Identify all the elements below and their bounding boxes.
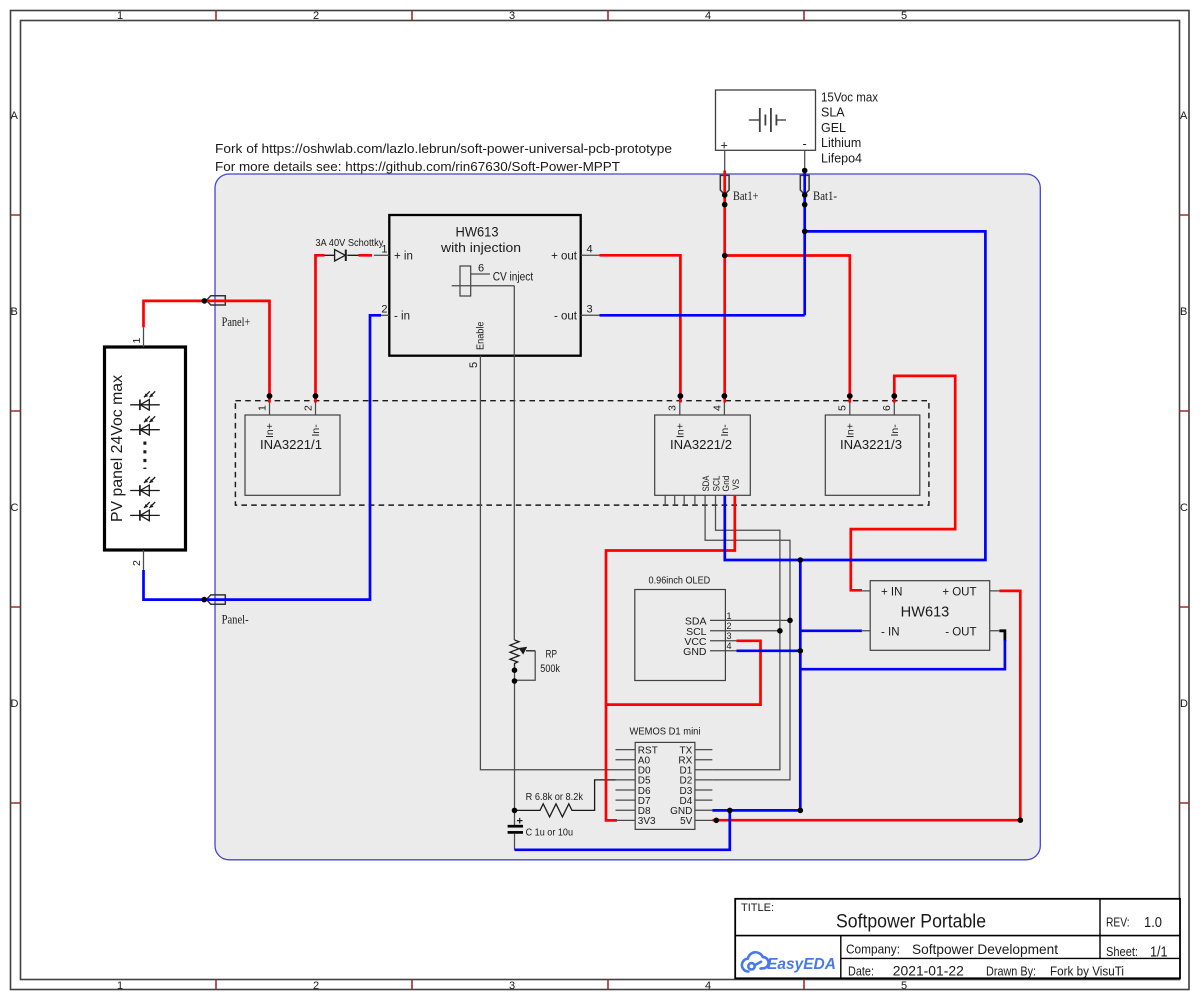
title block outer <box>735 899 1180 979</box>
INA3221/1 box <box>245 415 340 495</box>
wire CV inject to RP top <box>513 286 515 640</box>
U1 pin 3 stub <box>581 314 600 316</box>
svg-text:+ out: + out <box>551 250 578 262</box>
svg-text:- OUT: - OUT <box>945 626 976 638</box>
zone letters left <box>11 110 19 710</box>
svg-text:GEL: GEL <box>821 121 846 135</box>
svg-text:SLA: SLA <box>821 106 845 120</box>
svg-text:3: 3 <box>587 304 593 316</box>
svg-text:2: 2 <box>727 621 732 631</box>
wire blue main vertical bus <box>799 560 802 810</box>
svg-text:3: 3 <box>727 631 732 641</box>
svg-text:5V: 5V <box>680 816 693 827</box>
PV panel box <box>105 347 186 550</box>
battery pin stubs <box>725 150 805 170</box>
svg-text:5: 5 <box>468 362 480 368</box>
svg-text:EasyEDA: EasyEDA <box>767 956 836 973</box>
OLED VCC GND stubs <box>710 641 737 651</box>
svg-text:Date:: Date: <box>848 964 874 978</box>
wire blue HW613/2 -OUT return to bus <box>800 640 1005 669</box>
svg-text:B: B <box>11 306 18 318</box>
U1 CV inject crossbar wire <box>452 285 515 287</box>
svg-text:+: + <box>517 816 523 828</box>
svg-text:2: 2 <box>381 304 387 316</box>
wire red U1 +out to INA2 pin3 <box>600 255 681 402</box>
INA3221/2 box <box>655 415 751 495</box>
svg-text:5: 5 <box>901 980 907 992</box>
svg-text:1: 1 <box>727 611 732 621</box>
svg-text:500k: 500k <box>540 663 560 675</box>
svg-text:In+: In+ <box>264 423 276 438</box>
svg-text:INA3221/2: INA3221/2 <box>670 438 732 452</box>
svg-text:1: 1 <box>256 405 268 411</box>
svg-text:R 6.8k or 8.2k: R 6.8k or 8.2k <box>526 791 584 803</box>
potentiometer RP wiper loop wire <box>517 651 535 681</box>
connector Bat1+ symbol <box>720 175 729 194</box>
U1 pin 4 stub <box>581 254 600 256</box>
svg-text:Fork by VisuTi: Fork by VisuTi <box>1050 965 1124 979</box>
wire red Bat1+ down to INA2 pin4 <box>723 171 726 403</box>
wire OLED SCL horizontal <box>710 630 780 632</box>
svg-text:HW613: HW613 <box>456 225 499 240</box>
INA3221/1 pin 1 stub <box>269 399 271 415</box>
svg-text:4: 4 <box>705 10 711 22</box>
wire blue U1 -out to Bat1- vertical <box>600 314 805 317</box>
wire red INA1 In- up to diode anode <box>316 255 325 402</box>
svg-text:RP: RP <box>546 649 558 661</box>
svg-text:+ IN: + IN <box>881 586 902 598</box>
INA3221/1 pin 2 stub <box>315 399 317 415</box>
connector Bat1- symbol <box>800 175 809 194</box>
INA3221/3 box <box>825 415 920 495</box>
svg-text:Bat1-: Bat1- <box>813 189 837 203</box>
svg-text:- out: - out <box>554 310 578 322</box>
svg-text:6: 6 <box>881 405 893 411</box>
capacitor C plates <box>508 825 523 828</box>
photodiode 4 <box>130 502 160 521</box>
svg-text:+ in: + in <box>394 250 413 262</box>
svg-text:3: 3 <box>667 405 679 411</box>
EasyEDA logo cloud <box>742 952 769 971</box>
svg-text:4: 4 <box>727 641 732 651</box>
RP body lower wire <box>514 666 516 825</box>
zone ticks left <box>11 215 21 803</box>
svg-text:VS: VS <box>731 479 742 490</box>
dotted continuation in PV panel <box>143 442 146 470</box>
resistor R 6.8k zigzag <box>515 780 616 817</box>
wire red HW613/2 +OUT to WEMOS 5V <box>712 591 1020 820</box>
svg-text:C: C <box>11 502 19 514</box>
svg-text:GND: GND <box>683 646 707 658</box>
svg-text:In+: In+ <box>675 423 687 438</box>
title block logo cell divider <box>840 936 842 979</box>
svg-text:1: 1 <box>117 10 123 22</box>
svg-text:1.0: 1.0 <box>1144 915 1162 931</box>
zone letters right <box>1180 110 1188 710</box>
svg-text:5: 5 <box>901 10 907 22</box>
schematic sheet background <box>215 174 1040 860</box>
wire blue WEMOS GND to bus <box>712 809 800 812</box>
svg-text:Lifepo4: Lifepo4 <box>821 151 862 165</box>
svg-text:PV panel 24Voc max: PV panel 24Voc max <box>109 375 126 522</box>
WEMOS right pin stubs <box>695 750 713 821</box>
svg-text:- in: - in <box>394 310 410 322</box>
battery symbol <box>749 108 786 132</box>
svg-text:2: 2 <box>302 405 314 411</box>
svg-text:+ OUT: + OUT <box>942 586 976 598</box>
svg-text:CV inject: CV inject <box>493 271 534 283</box>
connector Panel+ symbol <box>207 296 226 305</box>
wire red OLED VCC loop <box>607 641 761 705</box>
svg-text:In-: In- <box>889 424 901 437</box>
zone ticks top <box>216 11 804 21</box>
svg-text:Enable: Enable <box>475 321 487 350</box>
converter U2 HW613 box <box>870 581 990 651</box>
svg-text:SDA: SDA <box>701 475 712 492</box>
battery BT1 box <box>716 90 816 150</box>
svg-text:Company:: Company: <box>846 943 900 957</box>
wire blue GND down and left to capacitor <box>515 810 730 849</box>
WEMOS right pin labels <box>670 745 693 827</box>
svg-text:In-: In- <box>719 424 731 437</box>
svg-text:INA3221/1: INA3221/1 <box>260 438 322 452</box>
svg-text:Sheet:: Sheet: <box>1106 945 1138 959</box>
svg-text:Lithium: Lithium <box>821 136 861 150</box>
zone ticks right <box>1180 215 1190 803</box>
potentiometer RP wiper arrow <box>526 650 535 652</box>
svg-text:2: 2 <box>313 980 319 992</box>
RP junction dots <box>512 667 518 673</box>
photodiode 2 <box>130 416 160 435</box>
wire blue OLED GND to bus <box>737 649 801 652</box>
svg-text:2: 2 <box>313 10 319 22</box>
svg-text:TITLE:: TITLE: <box>741 902 774 914</box>
svg-text:4: 4 <box>705 980 711 992</box>
U1 pin 1 stub <box>374 254 389 256</box>
svg-text:2021-01-22: 2021-01-22 <box>893 963 964 979</box>
photodiode 3 <box>130 477 160 496</box>
INA3221/2 pin 3 stub <box>679 399 681 415</box>
svg-text:INA3221/3: INA3221/3 <box>840 438 902 452</box>
svg-text:D: D <box>1180 698 1188 710</box>
svg-text:1: 1 <box>117 980 123 992</box>
converter U1 HW613 with injection box <box>389 215 580 356</box>
wire blue PV- to Panel- to U1 -in <box>144 315 382 599</box>
wire OLED SDA horizontal <box>710 619 790 621</box>
svg-text:In+: In+ <box>845 423 857 438</box>
photodiode 1 <box>130 391 160 410</box>
svg-text:Panel+: Panel+ <box>222 315 251 329</box>
INA3221/3 pin 5 stub <box>849 399 851 415</box>
battery type annotation <box>821 91 879 166</box>
zone numbers bottom <box>117 980 907 992</box>
svg-text:15Voc max: 15Voc max <box>821 91 879 105</box>
wire red INA3 pin6 to HW613/2 +IN <box>851 376 955 590</box>
INA3221/2 pin 4 stub <box>723 399 725 415</box>
OLED display box <box>635 590 726 681</box>
svg-text:0.96inch OLED: 0.96inch OLED <box>649 575 711 587</box>
capacitor bottom lead <box>514 834 516 850</box>
wire SDA net INA3221/2 to OLED/D2 <box>705 495 790 780</box>
WEMOS left pin labels <box>638 745 658 827</box>
svg-text:3V3: 3V3 <box>638 816 656 827</box>
PV pin 1 stub <box>143 327 145 347</box>
svg-text:Softpower Portable: Softpower Portable <box>836 912 986 933</box>
zone numbers top <box>117 10 907 22</box>
wire red diode cathode to U1 +in <box>359 254 373 257</box>
connector Panel- symbol <box>207 595 226 604</box>
svg-text:4: 4 <box>587 244 593 256</box>
svg-text:2: 2 <box>131 560 143 566</box>
zone ticks bottom <box>216 980 804 990</box>
wire blue Bat1- bus right and down to INA2 Gnd <box>725 231 986 560</box>
svg-text:4: 4 <box>711 405 723 411</box>
black elbow at HW613/2 -OUT <box>999 631 1005 642</box>
svg-text:Bat1+: Bat1+ <box>733 189 759 203</box>
svg-text:Panel-: Panel- <box>222 613 249 627</box>
svg-text:HW613: HW613 <box>901 605 950 621</box>
U2 pin stubs <box>861 591 1000 631</box>
potentiometer RP zigzag <box>510 640 519 668</box>
dashed INA group box <box>235 401 929 505</box>
svg-text:1: 1 <box>131 338 143 344</box>
wire red PV+ to Panel+ to INA1 In+ <box>144 301 270 403</box>
diode D1 symbol <box>324 250 359 261</box>
title block rev/sheet divider <box>1099 899 1101 959</box>
svg-text:D: D <box>11 698 19 710</box>
svg-text:REV:: REV: <box>1106 916 1130 930</box>
U1 CV inject connector symbol <box>460 266 471 296</box>
U1 pin 6 stub <box>471 273 490 275</box>
svg-text:Softpower Development: Softpower Development <box>912 941 1058 957</box>
title block row divider 1 <box>735 935 1180 937</box>
svg-text:For more details see: https://: For more details see: https://github.com… <box>215 159 620 174</box>
wire SCL net INA3221/2 to OLED/D1 <box>712 495 780 770</box>
svg-text:WEMOS D1 mini: WEMOS D1 mini <box>630 726 701 738</box>
svg-text:A: A <box>11 110 19 122</box>
svg-text:5: 5 <box>837 405 849 411</box>
PV pin 2 stub <box>143 550 145 570</box>
svg-text:- IN: - IN <box>881 626 900 638</box>
svg-text:3: 3 <box>509 10 515 22</box>
wire blue bus to HW613/2 -IN <box>800 629 862 632</box>
title block row divider 2 <box>841 957 1180 959</box>
svg-text:C: C <box>1180 502 1188 514</box>
svg-text:B: B <box>1180 306 1187 318</box>
svg-text:-: - <box>803 137 807 151</box>
svg-text:3A 40V Schottky: 3A 40V Schottky <box>315 237 384 249</box>
WEMOS left pin stubs <box>616 750 636 821</box>
svg-text:A: A <box>1180 110 1188 122</box>
svg-text:6: 6 <box>478 263 484 275</box>
svg-text:Drawn By:: Drawn By: <box>986 964 1036 978</box>
wire red crossover to INA3 pin5 <box>725 256 850 403</box>
svg-text:3: 3 <box>509 980 515 992</box>
wire Enable net U1 pin5 to WEMOS D0 <box>480 356 615 770</box>
svg-text:1/1: 1/1 <box>1150 944 1168 960</box>
INA3221/2 unconnected bottom stubs <box>665 495 695 505</box>
svg-text:with injection: with injection <box>440 241 521 255</box>
INA3221/3 pin 6 stub <box>893 399 895 415</box>
svg-text:In-: In- <box>310 424 322 437</box>
WEMOS D1 mini box <box>635 742 695 829</box>
wire blue Bat1- down <box>803 172 806 315</box>
U1 pin 2 stub <box>376 314 389 316</box>
wire red INA2 VS to WEMOS 3V3 <box>606 495 735 820</box>
svg-text:C 1u or 10u: C 1u or 10u <box>526 827 574 839</box>
svg-text:Fork of https://oshwlab.com/la: Fork of https://oshwlab.com/lazlo.lebrun… <box>215 141 672 156</box>
